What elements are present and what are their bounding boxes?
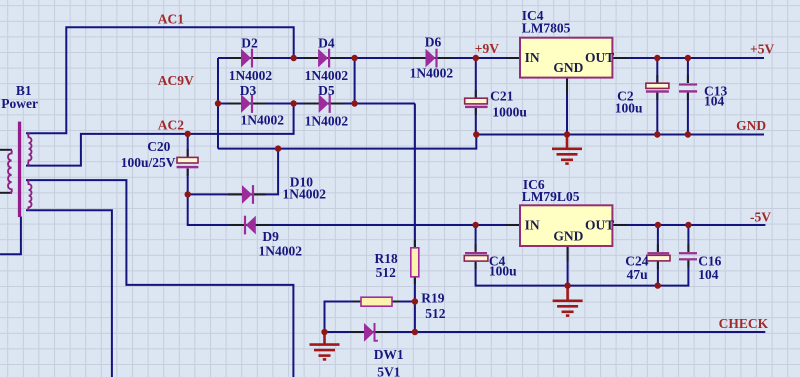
svg-text:DW1: DW1 (374, 347, 404, 362)
svg-text:+9V: +9V (475, 41, 499, 56)
svg-text:+5V: +5V (750, 41, 774, 56)
svg-text:GND: GND (553, 60, 583, 75)
svg-text:D3: D3 (240, 83, 257, 98)
svg-text:GND: GND (553, 228, 583, 243)
svg-text:AC9V: AC9V (158, 73, 194, 88)
svg-text:LM7805: LM7805 (522, 20, 571, 35)
svg-text:Power: Power (1, 96, 38, 111)
svg-text:R19: R19 (421, 290, 444, 305)
svg-text:1000u: 1000u (492, 104, 527, 119)
svg-text:AC2: AC2 (158, 117, 184, 132)
svg-text:104: 104 (704, 93, 725, 108)
svg-text:5V1: 5V1 (377, 365, 400, 377)
svg-text:D9: D9 (262, 229, 279, 244)
svg-text:1N4002: 1N4002 (259, 244, 303, 259)
svg-text:1N4002: 1N4002 (283, 186, 327, 201)
svg-text:100u: 100u (489, 263, 517, 278)
svg-text:D5: D5 (318, 83, 335, 98)
svg-text:100u: 100u (615, 100, 643, 115)
svg-text:D2: D2 (241, 36, 258, 51)
svg-text:C20: C20 (147, 139, 170, 154)
svg-text:47u: 47u (627, 267, 649, 282)
svg-text:1N4002: 1N4002 (241, 112, 285, 127)
svg-text:100u/25V: 100u/25V (121, 155, 176, 170)
svg-text:1N4002: 1N4002 (229, 68, 273, 83)
svg-text:LM79L05: LM79L05 (522, 189, 580, 204)
svg-text:C21: C21 (490, 89, 513, 104)
svg-text:1N4002: 1N4002 (305, 68, 349, 83)
svg-text:AC1: AC1 (158, 12, 184, 27)
svg-text:-5V: -5V (750, 209, 771, 224)
svg-text:OUT: OUT (585, 50, 614, 65)
svg-text:D6: D6 (425, 34, 442, 49)
svg-text:104: 104 (698, 267, 719, 282)
svg-text:512: 512 (376, 265, 397, 280)
svg-text:IN: IN (525, 50, 540, 65)
svg-text:GND: GND (736, 118, 766, 133)
svg-text:1N4002: 1N4002 (410, 66, 454, 81)
svg-text:CHECK: CHECK (719, 316, 769, 331)
svg-text:D4: D4 (318, 36, 335, 51)
svg-text:OUT: OUT (585, 217, 614, 232)
svg-text:1N4002: 1N4002 (305, 113, 349, 128)
svg-text:512: 512 (425, 306, 446, 321)
svg-text:IN: IN (525, 217, 540, 232)
